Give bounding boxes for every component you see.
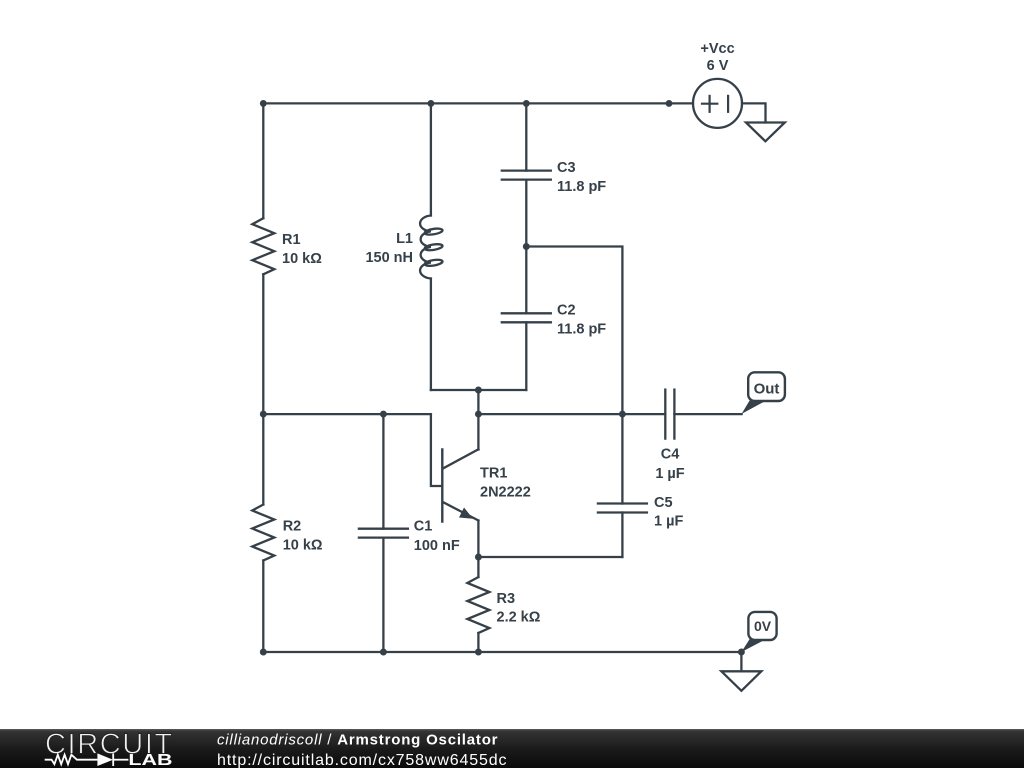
svg-text:+Vcc: +Vcc bbox=[700, 41, 734, 57]
svg-text:cillianodriscoll / Armstrong O: cillianodriscoll / Armstrong Oscilator bbox=[217, 732, 498, 749]
svg-text:150 nH: 150 nH bbox=[365, 250, 413, 266]
svg-text:R1: R1 bbox=[282, 232, 301, 248]
svg-text:R3: R3 bbox=[497, 591, 516, 607]
svg-text:6 V: 6 V bbox=[707, 58, 729, 74]
svg-text:C3: C3 bbox=[557, 160, 576, 176]
svg-text:0V: 0V bbox=[754, 618, 772, 634]
svg-text:LAB: LAB bbox=[128, 752, 172, 768]
svg-text:C5: C5 bbox=[654, 495, 673, 511]
svg-text:2N2222: 2N2222 bbox=[480, 485, 531, 501]
svg-text:11.8 pF: 11.8 pF bbox=[557, 179, 606, 195]
svg-text:C2: C2 bbox=[557, 303, 576, 319]
svg-text:TR1: TR1 bbox=[480, 466, 507, 482]
svg-text:10 kΩ: 10 kΩ bbox=[283, 538, 323, 554]
svg-text:Out: Out bbox=[754, 380, 780, 397]
svg-text:http://circuitlab.com/cx758ww6: http://circuitlab.com/cx758ww6455dc bbox=[217, 752, 507, 768]
svg-text:L1: L1 bbox=[396, 231, 413, 247]
svg-text:1 µF: 1 µF bbox=[655, 466, 684, 482]
svg-text:11.8 pF: 11.8 pF bbox=[557, 322, 606, 338]
svg-text:1 µF: 1 µF bbox=[654, 514, 683, 530]
svg-text:2.2 kΩ: 2.2 kΩ bbox=[497, 610, 541, 626]
svg-text:R2: R2 bbox=[283, 519, 302, 535]
svg-text:100 nF: 100 nF bbox=[414, 538, 460, 554]
svg-text:C4: C4 bbox=[661, 446, 680, 462]
svg-text:C1: C1 bbox=[414, 518, 433, 534]
svg-text:10 kΩ: 10 kΩ bbox=[282, 251, 322, 267]
